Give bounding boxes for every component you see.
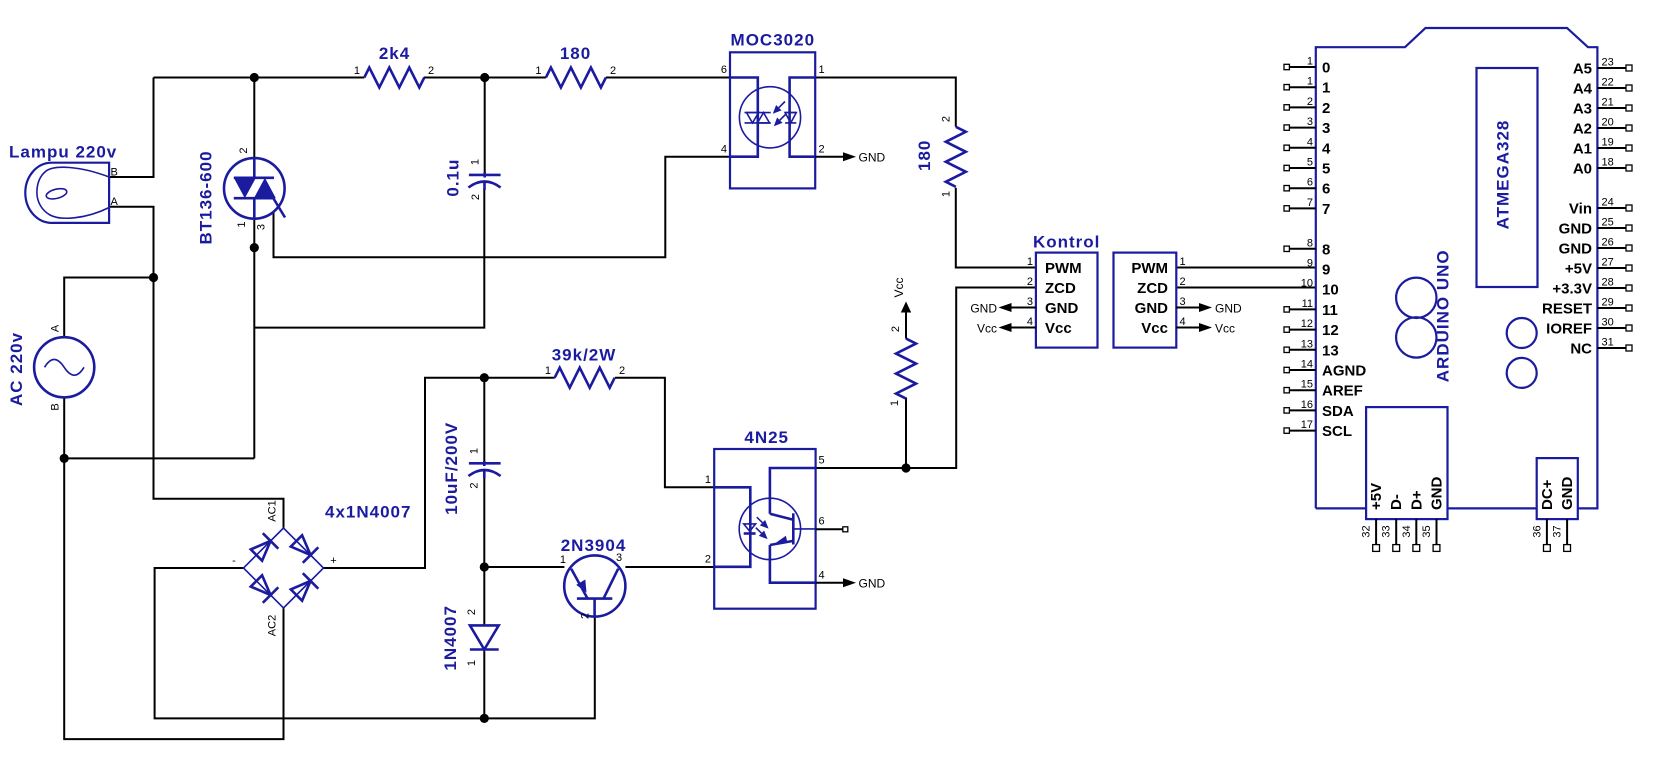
- svg-text:30: 30: [1602, 317, 1614, 329]
- svg-text:Vcc: Vcc: [892, 277, 906, 297]
- svg-text:GND: GND: [1135, 300, 1169, 317]
- svg-text:2: 2: [1180, 276, 1186, 288]
- pin SCL Arduino: [1284, 419, 1352, 440]
- svg-text:25: 25: [1602, 217, 1614, 229]
- power header pin4: [1176, 321, 1235, 335]
- svg-text:IOREF: IOREF: [1546, 321, 1592, 338]
- svg-text:+5V: +5V: [1368, 483, 1385, 510]
- svg-text:+5V: +5V: [1565, 261, 1592, 278]
- svg-text:D-: D-: [1388, 494, 1405, 510]
- svg-text:10: 10: [1301, 278, 1313, 290]
- svg-text:180: 180: [915, 140, 934, 171]
- svg-text:3: 3: [616, 552, 622, 564]
- pin 6 Arduino: [1284, 177, 1330, 198]
- svg-text:2: 2: [619, 365, 625, 377]
- svg-text:GND: GND: [1215, 301, 1242, 315]
- connector Kontrol: [1027, 233, 1101, 348]
- pin A3 Arduino right: [1573, 97, 1632, 118]
- svg-text:A2: A2: [1573, 121, 1592, 138]
- svg-text:A5: A5: [1573, 61, 1592, 78]
- svg-text:RESET: RESET: [1542, 301, 1592, 318]
- wire pullup resistor bottom: [905, 398, 907, 469]
- svg-text:5: 5: [1322, 161, 1330, 178]
- svg-text:BT136-600: BT136-600: [197, 150, 216, 244]
- ground Kontrol pin3: [970, 301, 1036, 315]
- power Kontrol pin4: [977, 321, 1036, 335]
- svg-text:SDA: SDA: [1322, 403, 1354, 420]
- svg-text:6: 6: [819, 516, 825, 528]
- svg-text:PWM: PWM: [1045, 260, 1082, 277]
- Arduino UNO body: [1316, 28, 1598, 508]
- svg-text:AC1: AC1: [267, 500, 279, 521]
- svg-text:11: 11: [1302, 298, 1313, 310]
- svg-text:17: 17: [1301, 419, 1313, 431]
- pin NC Arduino right: [1570, 337, 1632, 358]
- pin 2 Arduino: [1284, 96, 1330, 117]
- svg-text:GND: GND: [1559, 241, 1593, 258]
- svg-text:4N25: 4N25: [744, 428, 789, 447]
- resistor 180 (PWM pull): [915, 116, 966, 197]
- svg-text:Vcc: Vcc: [1141, 320, 1168, 337]
- svg-text:29: 29: [1602, 297, 1614, 309]
- lamp Lampu 220v: [9, 143, 119, 223]
- svg-text:GND: GND: [859, 151, 886, 165]
- svg-text:1: 1: [941, 191, 953, 197]
- triac BT136-600: [197, 147, 286, 244]
- AC source AC 220v: [7, 324, 94, 411]
- terminal 4N25 pin6: [816, 527, 848, 532]
- pin 3 Arduino: [1284, 116, 1330, 137]
- resistor 39k/2W: [545, 346, 625, 388]
- svg-text:24: 24: [1602, 197, 1614, 209]
- optocoupler MOC3020: [721, 31, 825, 189]
- svg-text:2: 2: [466, 609, 478, 615]
- svg-text:2: 2: [1322, 100, 1330, 117]
- svg-text:GND: GND: [1045, 300, 1079, 317]
- pin 1 Arduino: [1284, 76, 1330, 97]
- svg-text:18: 18: [1602, 157, 1614, 169]
- svg-text:180: 180: [560, 44, 591, 63]
- pin +5V Arduino right: [1565, 257, 1632, 278]
- svg-text:A1: A1: [1573, 141, 1592, 158]
- svg-text:9: 9: [1307, 258, 1313, 270]
- pin A1 Arduino right: [1573, 137, 1632, 158]
- svg-text:8: 8: [1307, 237, 1313, 249]
- svg-text:A0: A0: [1573, 161, 1592, 178]
- svg-text:33: 33: [1381, 525, 1393, 537]
- pin A4 Arduino right: [1573, 77, 1632, 98]
- svg-text:0: 0: [1322, 60, 1330, 77]
- wire 2N3904 collector to 4N25 pin2: [625, 566, 714, 568]
- svg-text:2: 2: [580, 613, 592, 619]
- wire 1N4007 bottom: [483, 650, 485, 719]
- svg-text:ATMEGA328: ATMEGA328: [1494, 120, 1513, 230]
- ground 4N25 pin4: [816, 577, 886, 591]
- svg-text:2: 2: [468, 482, 480, 488]
- svg-text:Vcc: Vcc: [1215, 321, 1235, 335]
- connector header to Arduino: [1114, 253, 1186, 348]
- bridge rectifier 4x1N4007: [232, 500, 411, 636]
- pin 10 Arduino: [1301, 278, 1339, 299]
- optocoupler 4N25: [705, 428, 825, 609]
- capacitor 10uF/200V: [442, 422, 501, 515]
- pin 11 Arduino: [1284, 298, 1338, 319]
- svg-text:31: 31: [1602, 337, 1614, 349]
- svg-text:7: 7: [1307, 197, 1313, 209]
- svg-text:4: 4: [1180, 316, 1186, 328]
- svg-text:2: 2: [1307, 96, 1313, 108]
- svg-text:5: 5: [1307, 157, 1313, 169]
- svg-text:15: 15: [1301, 379, 1313, 391]
- connector USB +5V D- D+ GND: [1361, 407, 1448, 551]
- pin SDA Arduino: [1284, 399, 1354, 420]
- svg-text:13: 13: [1301, 338, 1313, 350]
- svg-text:+3.3V: +3.3V: [1552, 281, 1592, 298]
- pin 7 Arduino: [1284, 197, 1330, 218]
- svg-text:13: 13: [1322, 342, 1339, 359]
- resistor 180 (series): [535, 44, 616, 88]
- svg-text:19: 19: [1602, 137, 1614, 149]
- svg-text:1: 1: [1307, 76, 1313, 88]
- svg-text:B: B: [50, 403, 62, 410]
- svg-text:4: 4: [1307, 136, 1313, 148]
- svg-text:1: 1: [236, 221, 248, 227]
- svg-text:36: 36: [1531, 525, 1543, 537]
- svg-text:+: +: [330, 555, 336, 567]
- svg-text:2: 2: [238, 147, 250, 153]
- svg-text:35: 35: [1421, 525, 1433, 537]
- wire AC source A: [64, 278, 153, 338]
- pin 12 Arduino: [1284, 318, 1339, 339]
- svg-text:1: 1: [1180, 256, 1186, 268]
- svg-text:1N4007: 1N4007: [441, 605, 460, 671]
- svg-text:4: 4: [1027, 316, 1033, 328]
- svg-text:6: 6: [1307, 177, 1313, 189]
- wire node A to bridge AC1: [154, 278, 284, 529]
- svg-text:2: 2: [610, 65, 616, 77]
- svg-text:2: 2: [470, 194, 482, 200]
- svg-text:MOC3020: MOC3020: [731, 31, 815, 50]
- svg-text:10uF/200V: 10uF/200V: [442, 422, 461, 515]
- svg-text:ARDUINO UNO: ARDUINO UNO: [1434, 249, 1453, 382]
- svg-text:39k/2W: 39k/2W: [552, 346, 617, 365]
- svg-text:6: 6: [1322, 181, 1330, 198]
- svg-text:2: 2: [890, 326, 902, 332]
- Arduino UNO label: [1434, 249, 1453, 382]
- wire 39k resistor left: [484, 377, 554, 379]
- svg-text:1: 1: [889, 400, 901, 406]
- svg-text:AREF: AREF: [1322, 383, 1363, 400]
- svg-text:9: 9: [1322, 262, 1330, 279]
- svg-text:Vin: Vin: [1569, 201, 1592, 218]
- pin Vin Arduino right: [1569, 197, 1632, 218]
- svg-text:10: 10: [1322, 282, 1339, 299]
- ATMEGA328 chip: [1477, 68, 1538, 287]
- svg-text:A: A: [50, 324, 62, 332]
- pin 5 Arduino: [1284, 157, 1330, 178]
- wire top AC rail: [154, 77, 731, 79]
- pin IOREF Arduino right: [1546, 317, 1632, 338]
- svg-text:1: 1: [354, 65, 360, 77]
- svg-text:1: 1: [705, 474, 711, 486]
- svg-text:2: 2: [1027, 276, 1033, 288]
- svg-text:3: 3: [1307, 116, 1313, 128]
- wire lamp B: [109, 78, 153, 178]
- svg-text:1: 1: [468, 448, 480, 454]
- svg-text:DC+: DC+: [1539, 479, 1556, 510]
- svg-text:PWM: PWM: [1131, 260, 1168, 277]
- wire 0.1u cap bottom: [254, 188, 484, 328]
- svg-text:32: 32: [1361, 525, 1373, 537]
- svg-text:3: 3: [1322, 120, 1330, 137]
- svg-text:2: 2: [705, 554, 711, 566]
- pin 9 Arduino: [1307, 258, 1330, 279]
- svg-text:AC 220v: AC 220v: [7, 332, 26, 406]
- svg-text:1: 1: [466, 660, 478, 666]
- svg-text:1: 1: [1307, 56, 1313, 68]
- svg-text:2: 2: [941, 116, 953, 122]
- pin A0 Arduino right: [1573, 157, 1632, 178]
- svg-text:3: 3: [1027, 296, 1033, 308]
- svg-text:21: 21: [1602, 97, 1614, 109]
- svg-text:27: 27: [1602, 257, 1614, 269]
- svg-text:2k4: 2k4: [379, 44, 410, 63]
- svg-text:1: 1: [1322, 80, 1330, 97]
- svg-text:11: 11: [1322, 302, 1338, 319]
- svg-text:20: 20: [1602, 117, 1614, 129]
- svg-text:4x1N4007: 4x1N4007: [325, 503, 411, 522]
- pin AREF Arduino: [1284, 379, 1363, 400]
- pin 8 Arduino: [1284, 237, 1330, 258]
- svg-text:34: 34: [1401, 525, 1413, 537]
- svg-text:4: 4: [721, 144, 727, 156]
- svg-text:Kontrol: Kontrol: [1033, 233, 1100, 252]
- pin GND Arduino right: [1559, 217, 1632, 238]
- svg-text:37: 37: [1552, 525, 1564, 537]
- pin 13 Arduino: [1284, 338, 1339, 359]
- wire Kontrol to Arduino pin9: [1176, 267, 1316, 269]
- wire base node to 2N3904: [484, 566, 564, 568]
- pin +3.3V Arduino right: [1552, 277, 1632, 298]
- svg-text:AGND: AGND: [1322, 363, 1366, 380]
- wire MOC pin1 to PWM resistor: [815, 78, 956, 127]
- wire Kontrol to Arduino pin10: [1176, 287, 1316, 289]
- svg-text:A: A: [111, 196, 119, 208]
- svg-text:1: 1: [819, 64, 825, 76]
- svg-text:3: 3: [256, 224, 268, 230]
- wire 10uF column: [483, 378, 485, 626]
- svg-text:Vcc: Vcc: [1045, 320, 1072, 337]
- svg-text:A3: A3: [1573, 101, 1592, 118]
- svg-text:D+: D+: [1408, 490, 1425, 510]
- svg-text:B: B: [111, 167, 118, 179]
- svg-text:4: 4: [1322, 140, 1331, 157]
- svg-text:26: 26: [1602, 237, 1614, 249]
- svg-text:12: 12: [1301, 318, 1313, 330]
- svg-text:8: 8: [1322, 241, 1330, 258]
- svg-text:ZCD: ZCD: [1045, 280, 1076, 297]
- connector DC+ GND: [1531, 458, 1577, 551]
- svg-text:6: 6: [721, 64, 727, 76]
- resistor 2k4: [354, 44, 434, 88]
- pin RESET Arduino right: [1542, 297, 1632, 318]
- svg-text:5: 5: [819, 455, 825, 467]
- pin A5 Arduino right: [1573, 57, 1632, 78]
- pin 4 Arduino: [1284, 136, 1331, 157]
- svg-text:Vcc: Vcc: [977, 321, 997, 335]
- svg-text:1: 1: [470, 159, 482, 165]
- svg-text:1: 1: [1027, 256, 1033, 268]
- wire triac pin1 down: [64, 218, 254, 458]
- svg-text:SCL: SCL: [1322, 423, 1352, 440]
- svg-text:22: 22: [1602, 77, 1614, 89]
- svg-text:ZCD: ZCD: [1137, 280, 1168, 297]
- resistor pullup ZCD: [889, 326, 916, 406]
- svg-text:A4: A4: [1573, 81, 1593, 98]
- power Vcc arrow: [892, 277, 911, 338]
- wire 4N25 pin5 to ZCD: [816, 288, 1036, 469]
- svg-text:3: 3: [1180, 296, 1186, 308]
- pin GND Arduino right: [1559, 237, 1632, 258]
- wire bridge plus to DC rail: [324, 378, 485, 568]
- svg-text:14: 14: [1301, 359, 1313, 371]
- ground MOC pin2: [815, 151, 885, 165]
- svg-text:2: 2: [819, 144, 825, 156]
- wire 0.1u cap top: [484, 78, 486, 173]
- svg-text:2: 2: [428, 65, 434, 77]
- pin AGND Arduino: [1284, 359, 1366, 380]
- pin 0 Arduino: [1284, 56, 1330, 77]
- svg-text:1: 1: [560, 554, 566, 566]
- svg-text:7: 7: [1322, 201, 1330, 218]
- svg-text:12: 12: [1322, 322, 1339, 339]
- wire bridge minus to ground rail: [155, 568, 595, 718]
- svg-text:-: -: [232, 555, 236, 567]
- svg-text:GND: GND: [1429, 477, 1446, 511]
- diode 1N4007: [441, 605, 499, 671]
- wire PWM from resistor to Kontrol: [956, 188, 1036, 268]
- wire triac gate to MOC pin4: [274, 157, 731, 258]
- svg-text:GND: GND: [1559, 477, 1576, 511]
- svg-text:Lampu 220v: Lampu 220v: [9, 143, 117, 162]
- svg-text:28: 28: [1602, 277, 1614, 289]
- wire triac pin2: [253, 78, 255, 159]
- svg-text:AC2: AC2: [267, 615, 279, 636]
- wire lamp A: [109, 207, 153, 278]
- svg-text:4: 4: [819, 570, 825, 582]
- capacitor 0.1u: [443, 159, 500, 200]
- svg-text:0.1u: 0.1u: [443, 159, 462, 197]
- svg-text:16: 16: [1301, 399, 1313, 411]
- mounting circles right: [1507, 318, 1537, 388]
- svg-text:1: 1: [535, 65, 541, 77]
- svg-text:GND: GND: [859, 577, 886, 591]
- ground header pin3: [1176, 301, 1242, 315]
- svg-text:NC: NC: [1570, 341, 1592, 358]
- mounting circles left: [1396, 278, 1436, 358]
- svg-text:23: 23: [1602, 57, 1614, 69]
- svg-text:1: 1: [545, 365, 551, 377]
- svg-text:GND: GND: [970, 301, 997, 315]
- pin A2 Arduino right: [1573, 117, 1632, 138]
- wire AC source B to bridge AC2: [64, 397, 283, 739]
- svg-text:GND: GND: [1559, 221, 1593, 238]
- transistor 2N3904: [560, 536, 626, 619]
- wire 39k to 4N25 pin1: [615, 378, 714, 488]
